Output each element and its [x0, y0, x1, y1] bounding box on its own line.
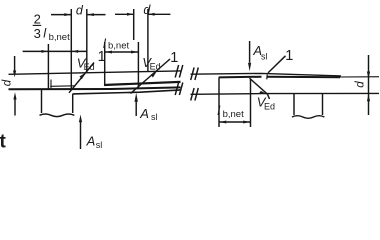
dimension d left: down arrowhead [13, 71, 16, 78]
2/3 lb,net left extension tick x=48.4 [47, 44, 49, 90]
cut mark slashes left figure bottom [175, 83, 178, 96]
top d dimension 2: right extension tick [147, 9, 149, 72]
slab bottom line (right sub-figure) [191, 92, 380, 95]
svg-text:2: 2 [34, 12, 41, 27]
lb,net (right) inside arrow left [220, 121, 227, 124]
end support left face [41, 90, 43, 113]
lb,net dimension (right): left tick from bar end down [218, 78, 220, 128]
svg-text:d: d [76, 3, 84, 17]
top bar segment B (right sub-figure, thick) [267, 76, 340, 79]
dimension d right: down arrowhead at top line [367, 72, 370, 79]
dimension d left: up arrowhead [13, 92, 16, 99]
top bar segment A (right sub-figure, thick) [219, 76, 262, 79]
svg-text:1: 1 [285, 48, 293, 64]
lb,net dimension (right): dim line [219, 121, 251, 123]
svg-text:Ed: Ed [84, 62, 95, 72]
intermediate support left face [293, 93, 295, 115]
svg-text:A: A [86, 134, 96, 149]
svg-text:d: d [355, 81, 367, 88]
bar end tick at x=51 [50, 80, 52, 90]
A_sl arrow under end support region [80, 122, 82, 149]
intermediate support right face [322, 93, 324, 115]
lb,net inside arrow left [106, 51, 113, 54]
top d dimension 2: dim line right shaft [148, 13, 170, 15]
svg-text:d: d [143, 3, 151, 17]
top d dimension 2: left extension tick [133, 9, 135, 40]
2/3 lb,net dimension line [23, 50, 88, 52]
section line 3 short tail [268, 94, 270, 99]
A_sl arrow at mid-span bar [135, 102, 137, 117]
svg-text:b,net: b,net [223, 109, 244, 120]
lb,net left tick x=104.7 (down to curtailed bar end) [104, 42, 106, 86]
lb,net inside arrow right [131, 51, 138, 54]
V_Ed arrowhead on section line 2 [151, 71, 158, 78]
curtailed bar segment over end support [50, 85, 75, 88]
45 deg section line 2 [131, 59, 171, 94]
top bar segment B end tick [266, 75, 268, 80]
end support right face [72, 94, 74, 113]
lb,net dimension (right): right tick [250, 80, 252, 128]
top d dimension 2: left outside arrow [127, 13, 133, 16]
svg-text:b,net: b,net [49, 32, 70, 43]
2/3 lb,net outside arrow right (pointing left at tick) [72, 50, 78, 53]
dimension d right: up arrowhead at bottom line [367, 94, 370, 101]
leader line to label 1 (right sub-figure) [268, 56, 286, 73]
curtailed bar in span (bar 2, thick) [104, 82, 181, 85]
svg-text:d: d [2, 79, 14, 86]
bottom reinforcement bar lower line (left sub-figure) [73, 90, 181, 94]
A_sl down arrow (right sub-figure) [249, 41, 251, 63]
end support wavy break line [40, 114, 75, 117]
lb,net right tick x=138.4 [137, 42, 139, 88]
top d dimension 1: left outside arrow [64, 13, 70, 16]
lb,net dimension (span case): dim line [105, 51, 139, 53]
V_Ed arrowhead on section line 1 [80, 72, 87, 79]
45 deg section line 3 (down-right) [250, 78, 268, 94]
top d dimension 2: dim line left shaft [115, 13, 133, 15]
top bar thin continuation to edge [340, 76, 379, 78]
svg-text:1: 1 [98, 49, 106, 65]
slab top line (left sub-figure) [9, 71, 181, 74]
top d dimension 1: dim line left shaft [51, 14, 71, 16]
dimension d left: lower stem [14, 100, 16, 116]
svg-text:sl: sl [261, 52, 268, 62]
slab top line (right sub-figure) [191, 73, 342, 76]
svg-text:3: 3 [34, 26, 41, 41]
top d dimension 2: right outside arrow [148, 13, 154, 16]
cut mark slashes left figure top [175, 65, 178, 78]
svg-text:Ed: Ed [264, 101, 275, 111]
section line at support inner edge x=71.3 (also 2/3 lb,net right tick and d-dim tick) [70, 9, 72, 89]
dimension d left: upper stem [14, 56, 16, 71]
svg-text:sl: sl [96, 140, 103, 150]
svg-text:1: 1 [170, 50, 178, 66]
top d dimension 1: right outside arrow [88, 13, 94, 16]
cut mark slashes right figure bottom [191, 88, 194, 101]
lb,net (right) inside arrow right [243, 121, 250, 124]
cut mark slashes right figure top [191, 68, 194, 81]
slab bottom / bar layer line (left sub-figure, thick) [9, 87, 181, 89]
svg-text:Ed: Ed [150, 62, 161, 72]
2/3 lb,net outside arrow left (pointing right at tick) [42, 50, 48, 53]
svg-text:A: A [139, 106, 149, 121]
top d dimension 1: dim line right shaft [87, 14, 105, 16]
arrowhead on section line 3 [259, 91, 268, 94]
svg-text:sl: sl [151, 112, 158, 122]
svg-text:t: t [0, 132, 7, 153]
intermediate support wavy break line [292, 116, 324, 119]
dimension d right: vertical line [368, 55, 370, 115]
svg-text:b,net: b,net [108, 40, 129, 51]
top d dimension 1: right extension tick x=86.8 down to top line [86, 9, 88, 73]
45 deg section line 1 [69, 63, 94, 93]
